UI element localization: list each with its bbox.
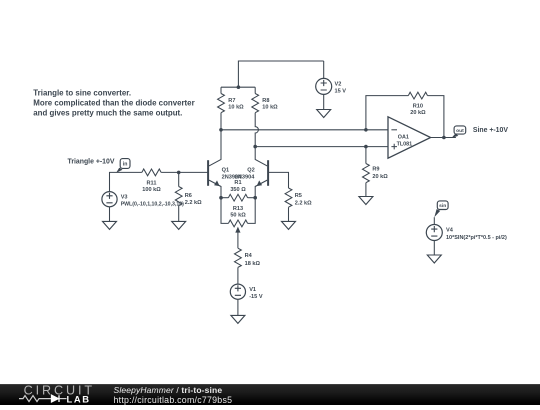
svg-text:out: out [456,128,464,134]
resistor R11 [142,169,161,193]
svg-text:-15 V: -15 V [249,294,263,300]
svg-text:OA1: OA1 [398,135,409,141]
attribution line 1 [114,385,223,395]
transistor Q2 [235,147,268,198]
voltage source V1 [230,284,263,300]
wire to R13 left [221,198,228,224]
voltage source V3 [102,192,184,208]
svg-text:V4: V4 [446,228,454,234]
wire V3 to ground [109,207,111,222]
flag sin [434,201,448,217]
node Q2 emitter junction [253,196,257,200]
resistor R5 [285,188,312,221]
wire triangle input net [110,172,209,191]
ground under V3 [103,221,117,229]
svg-text:10 kΩ: 10 kΩ [228,105,244,111]
svg-text:LAB: LAB [67,393,91,404]
svg-text:and gives pretty much the same: and gives pretty much the same output. [33,109,182,118]
svg-text:R7: R7 [228,98,235,104]
node R9 tee [364,145,368,149]
resistor R9 [363,147,389,197]
svg-text:in: in [123,161,128,167]
attribution line 2 [114,395,233,405]
wire noninverting-input net [255,146,388,148]
svg-text:R5: R5 [295,193,302,199]
wire top supply rail [221,61,324,87]
svg-text:18 kΩ: 18 kΩ [245,261,261,267]
ground under V2 [317,110,331,118]
wire V1 to ground [237,299,239,315]
svg-text:2.2 kΩ: 2.2 kΩ [185,200,202,206]
svg-text:20 kΩ: 20 kΩ [372,174,388,180]
svg-text:sin: sin [439,203,446,209]
svg-text:15 V: 15 V [335,88,347,94]
resistor R10 [408,92,427,116]
flag in [116,159,130,173]
svg-text:Triangle to sine converter.: Triangle to sine converter. [33,89,131,98]
ground under R5 [282,221,296,229]
svg-text:10 kΩ: 10 kΩ [262,105,278,111]
svg-text:20 kΩ: 20 kΩ [410,110,426,116]
wire sin flag to V4 [433,217,435,224]
wire feedback left vertical [366,96,408,130]
resistor R1 [228,180,247,201]
op-amp OA1 [388,117,431,158]
label Triangle +-10V [68,159,115,166]
svg-text:10*SIN(2*pi*T*0.5 - pi/2): 10*SIN(2*pi*T*0.5 - pi/2) [446,235,507,241]
svg-text:R9: R9 [372,166,379,172]
wire emitter rail left [221,197,228,199]
svg-text:Q2: Q2 [247,168,254,174]
ground under V1 [231,315,245,323]
node R6 tee [177,171,181,175]
svg-text:R4: R4 [245,253,253,259]
wire output net [431,137,456,139]
flag out [452,126,466,138]
svg-text:More complicated than the diod: More complicated than the diode converte… [33,99,194,108]
svg-text:V1: V1 [249,287,256,293]
svg-text:R1: R1 [234,180,241,186]
svg-text:PWL(0,-10,1,10,2,-10,3,10): PWL(0,-10,1,10,2,-10,3,10) [121,202,184,208]
wire inverting-input net [221,129,388,131]
resistor R6 [175,172,202,221]
wire to R13 right [248,198,256,224]
node feedback tee [364,128,368,132]
svg-text:R10: R10 [413,103,423,109]
ground under V4 [427,255,441,263]
wire V4 to ground [433,241,435,256]
svg-text:Triangle +-10V: Triangle +-10V [68,159,115,166]
svg-text:TL081: TL081 [397,141,413,147]
wire Q2 base to R5 [268,172,288,188]
voltage source V4 [426,225,507,242]
CircuitLab logo [0,384,104,405]
svg-text:R13: R13 [233,206,243,212]
node Q1 collector junction [219,128,223,132]
svg-text:Sine +-10V: Sine +-10V [473,127,508,134]
svg-text:V3: V3 [121,194,128,200]
svg-text:R6: R6 [185,193,192,199]
svg-text:2.2 kΩ: 2.2 kΩ [295,201,312,207]
wire emitter rail right [248,197,256,199]
resistor R8 [252,87,278,146]
wire feedback right vertical [428,96,444,138]
wire V2 top lead [323,61,325,78]
transistor Q1 [208,130,242,198]
svg-text:R11: R11 [147,180,157,186]
svg-text:V2: V2 [335,82,342,88]
svg-text:Q1: Q1 [222,168,229,174]
svg-text:100 kΩ: 100 kΩ [142,187,161,193]
ground under R9 [359,197,373,205]
wire V2 to ground [323,94,325,109]
potentiometer R13 [228,206,247,248]
node Q1 emitter junction [219,196,223,200]
resistor R7 [218,87,245,130]
footer bar [0,384,540,405]
ground under R6 [172,221,186,229]
svg-text:350 Ω: 350 Ω [230,187,246,193]
node Q2 collector junction [253,145,257,149]
resistor R4 [234,248,260,284]
svg-text:50 kΩ: 50 kΩ [230,213,246,219]
label Sine +-10V [473,127,508,134]
voltage source V2 [316,78,347,94]
node output junction [442,136,446,140]
svg-text:R8: R8 [262,98,269,104]
node supply junction [237,85,241,89]
annotation note text [33,89,194,118]
